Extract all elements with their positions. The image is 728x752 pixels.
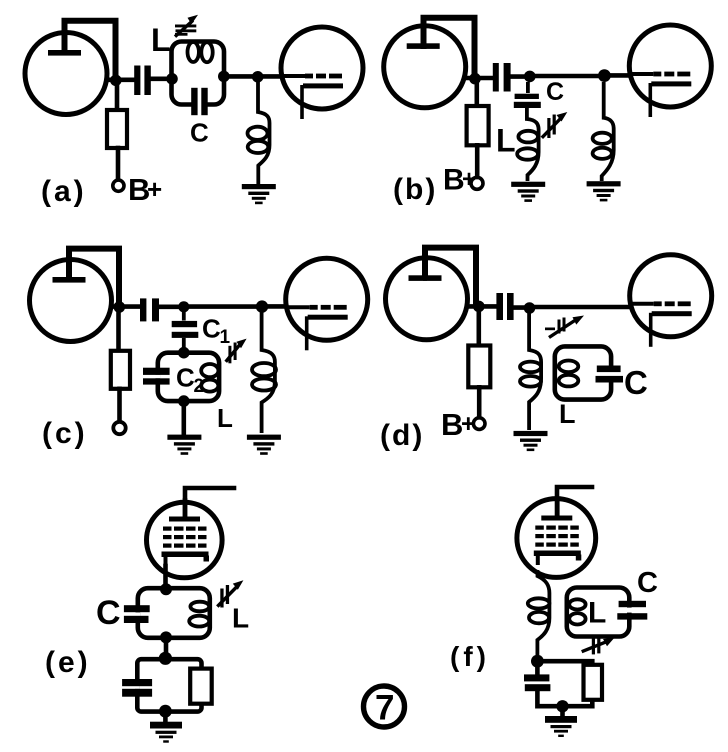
svg-text:(e): (e) [45,646,91,679]
svg-text:L: L [217,403,233,433]
svg-text:(a): (a) [41,175,87,208]
svg-text:1: 1 [220,327,231,348]
svg-text:7: 7 [375,689,394,728]
svg-text:+: + [461,410,476,438]
svg-text:C: C [546,78,564,106]
svg-text:(d): (d) [380,419,424,452]
svg-text:L: L [496,123,516,159]
svg-text:(c): (c) [42,417,88,450]
svg-text:C: C [176,363,195,393]
svg-text:C: C [624,364,648,401]
svg-text:+: + [462,166,476,193]
svg-text:L: L [232,603,249,634]
svg-text:+: + [147,174,162,204]
svg-text:(b): (b) [393,173,437,206]
svg-text:C: C [202,314,221,344]
svg-text:C: C [637,567,658,599]
svg-text:L: L [559,399,576,429]
svg-text:C: C [190,118,209,148]
svg-text:L: L [151,22,171,58]
svg-text:(f): (f) [450,641,490,672]
svg-text:C: C [96,594,121,632]
svg-text:2: 2 [194,376,205,397]
svg-text:L: L [588,597,606,630]
